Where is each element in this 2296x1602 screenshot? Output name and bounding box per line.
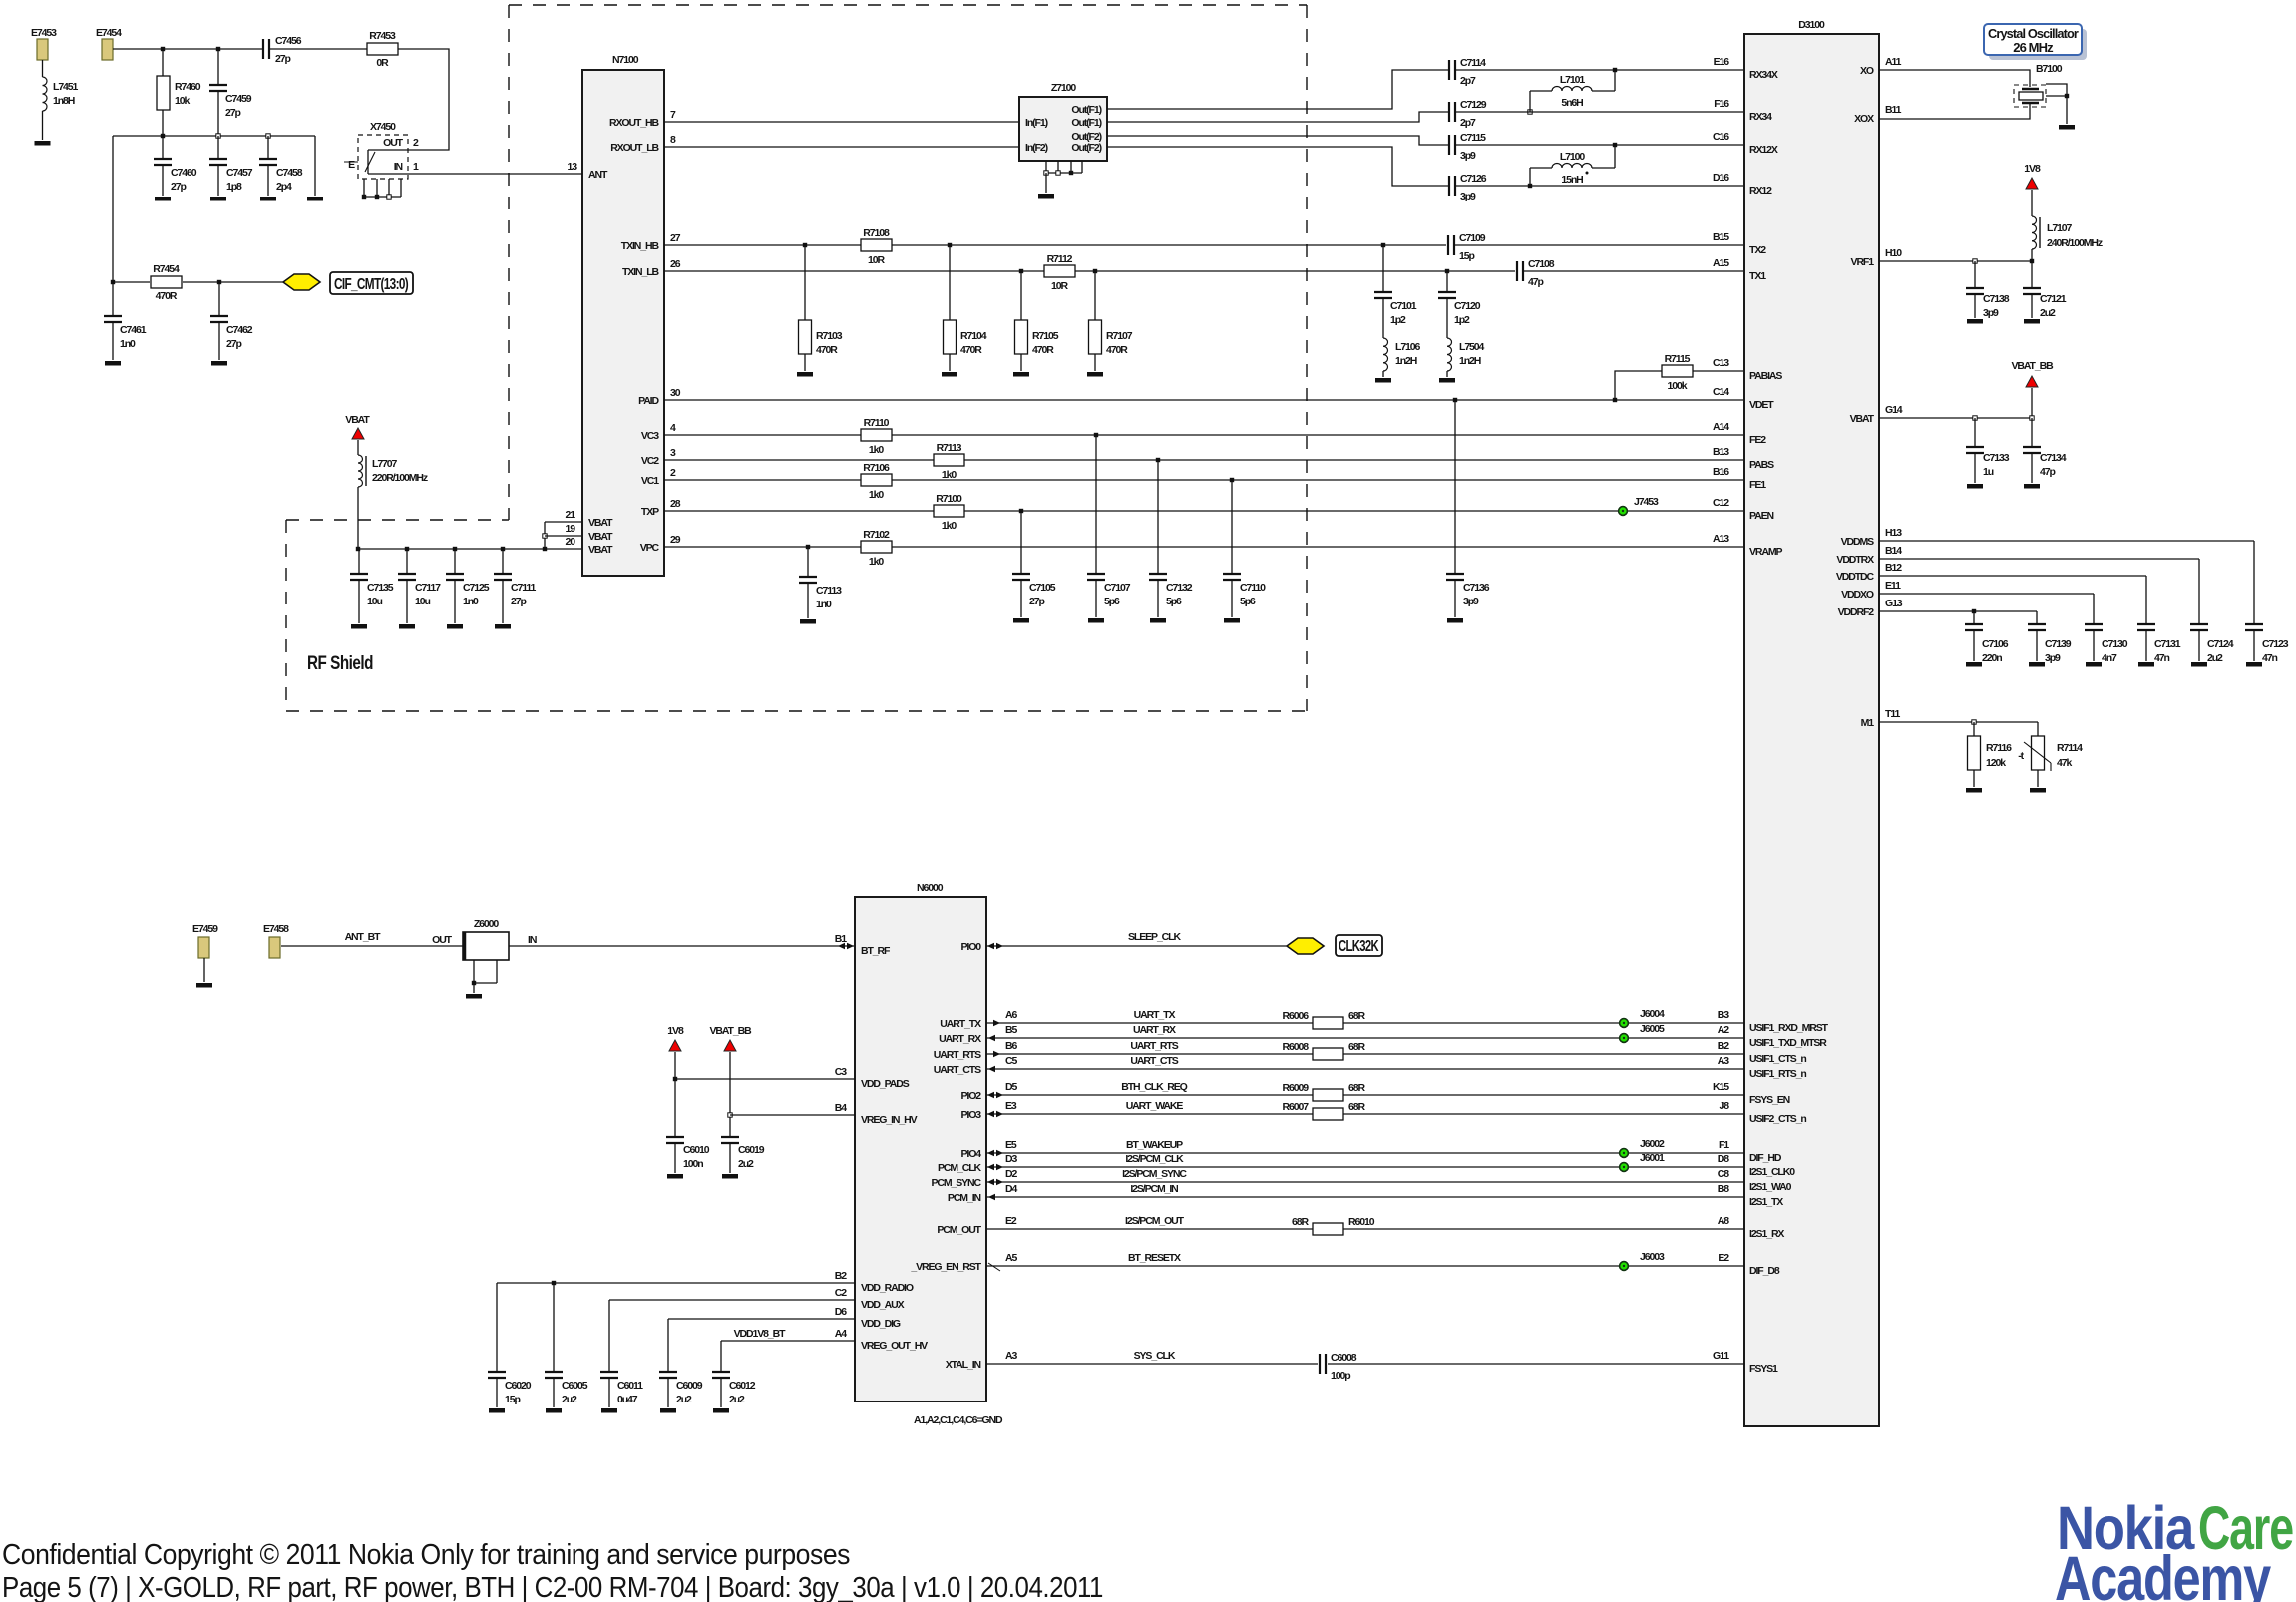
pin B11 XOX bbox=[1854, 104, 1902, 125]
svg-text:27p: 27p bbox=[275, 53, 290, 65]
svg-text:R7102: R7102 bbox=[863, 529, 890, 541]
IC Z7100 (RX SAW filter) bbox=[1019, 82, 1107, 161]
svg-text:R7105: R7105 bbox=[1032, 330, 1059, 342]
svg-text:VC1: VC1 bbox=[641, 475, 659, 487]
svg-text:B3: B3 bbox=[1718, 1009, 1729, 1021]
svg-text:C7125: C7125 bbox=[463, 582, 490, 594]
svg-text:470R: 470R bbox=[156, 290, 178, 302]
pin G11 FSYS1 bbox=[1713, 1350, 1778, 1375]
pin B3 USIF1_RXD_MRST bbox=[1718, 1009, 1829, 1034]
svg-text:CIF_CMT(13:0): CIF_CMT(13:0) bbox=[334, 276, 408, 293]
svg-text:E7453: E7453 bbox=[31, 27, 57, 39]
svg-text:L7451: L7451 bbox=[53, 81, 79, 93]
svg-text:I2S1_CLK0: I2S1_CLK0 bbox=[1749, 1166, 1795, 1178]
wire VDD_AUX net bbox=[609, 1300, 855, 1372]
ground bbox=[2029, 662, 2045, 667]
svg-text:R7114: R7114 bbox=[2057, 742, 2083, 754]
pin E5 PIO4 bbox=[960, 1139, 1016, 1160]
ground bbox=[466, 994, 482, 999]
svg-text:C6009: C6009 bbox=[676, 1380, 703, 1392]
capacitor C7126 3p9 (series) bbox=[1449, 173, 1487, 202]
svg-text:C7457: C7457 bbox=[226, 167, 253, 179]
svg-text:L7106: L7106 bbox=[1395, 341, 1421, 353]
wire M1 net bbox=[1879, 720, 2038, 736]
svg-text:D3100: D3100 bbox=[1798, 19, 1825, 31]
svg-text:PABIAS: PABIAS bbox=[1749, 370, 1782, 382]
pin A3 XTAL_IN bbox=[946, 1350, 1018, 1371]
pin B5 UART_RX bbox=[939, 1024, 1017, 1045]
svg-text:PAID: PAID bbox=[638, 395, 659, 407]
svg-text:A1,A2,C1,C4,C6=GND: A1,A2,C1,C4,C6=GND bbox=[914, 1414, 1003, 1426]
IC D3100 (X-GOLD baseband) bbox=[1744, 19, 1879, 1426]
power 1V8 bbox=[667, 1025, 684, 1051]
svg-text:C7109: C7109 bbox=[1459, 232, 1486, 244]
svg-text:R6008: R6008 bbox=[1283, 1041, 1310, 1053]
svg-text:29: 29 bbox=[670, 534, 681, 546]
svg-text:2p7: 2p7 bbox=[1460, 117, 1476, 129]
pin 21 VBAT bbox=[566, 509, 614, 529]
capacitor C7114 2p7 (series) bbox=[1449, 57, 1486, 87]
svg-text:15p: 15p bbox=[1459, 250, 1474, 262]
svg-text:VBAT: VBAT bbox=[588, 544, 613, 556]
capacitor C7113 1n0 bbox=[799, 547, 842, 618]
svg-text:47k: 47k bbox=[2057, 757, 2072, 769]
pin B15 TX2 bbox=[1713, 231, 1766, 256]
capacitor C7111 27p bbox=[494, 549, 537, 623]
pin B8 I2S1_TX bbox=[1718, 1183, 1783, 1208]
wire VBAT net bbox=[1879, 388, 2034, 420]
pin E11 VDDXO bbox=[1841, 580, 1901, 601]
resistor R7105 470R bbox=[1015, 271, 1059, 371]
svg-text:UART_TX: UART_TX bbox=[940, 1018, 981, 1030]
resistor R6010 68R bbox=[1292, 1216, 1375, 1235]
svg-text:USIF1_TXD_MTSR: USIF1_TXD_MTSR bbox=[1749, 1037, 1827, 1049]
capacitor C7457 1p8 bbox=[209, 136, 253, 196]
test point J6001 bbox=[1620, 1152, 1665, 1171]
svg-text:I2S1_WA0: I2S1_WA0 bbox=[1749, 1181, 1792, 1193]
svg-text:C6011: C6011 bbox=[617, 1380, 643, 1392]
svg-text:C3: C3 bbox=[835, 1066, 847, 1078]
svg-text:In(F2): In(F2) bbox=[1025, 142, 1048, 154]
svg-text:10u: 10u bbox=[415, 596, 430, 607]
svg-text:1p2: 1p2 bbox=[1454, 314, 1470, 326]
svg-text:R7116: R7116 bbox=[1986, 742, 2012, 754]
svg-text:R7460: R7460 bbox=[175, 81, 201, 93]
svg-text:L7107: L7107 bbox=[2047, 222, 2073, 234]
svg-text:10k: 10k bbox=[175, 95, 190, 107]
resistor R7114 47k (thermistor) bbox=[2018, 736, 2083, 787]
capacitor C7123 47n bbox=[2245, 624, 2289, 664]
pin 2 VC1 bbox=[641, 467, 676, 487]
pin 4 VC3 bbox=[641, 422, 676, 442]
svg-text:Out(F1): Out(F1) bbox=[1071, 104, 1101, 116]
wire ANT_BT bbox=[281, 931, 463, 946]
pin G14 VBAT bbox=[1850, 404, 1903, 425]
capacitor C7108 47p (series) bbox=[1517, 258, 1555, 288]
svg-text:J7453: J7453 bbox=[1634, 496, 1659, 508]
svg-text:PIO2: PIO2 bbox=[960, 1090, 981, 1102]
svg-text:240R/100MHz: 240R/100MHz bbox=[2047, 237, 2103, 249]
pin A3 USIF1_RTS_n bbox=[1718, 1055, 1807, 1080]
ground bbox=[1447, 618, 1463, 623]
svg-text:A3: A3 bbox=[1718, 1055, 1729, 1067]
pin 8 RXOUT_LB bbox=[610, 134, 676, 154]
wire TXIN_LB net bbox=[664, 269, 1744, 273]
wire RXOUT_HB to In(F1) bbox=[664, 121, 1019, 123]
svg-text:DIF_D8: DIF_D8 bbox=[1749, 1265, 1780, 1277]
capacitor C7130 4n7 bbox=[2085, 624, 2128, 664]
svg-text:C7114: C7114 bbox=[1460, 57, 1486, 69]
svg-text:1k0: 1k0 bbox=[942, 520, 957, 532]
power VBAT_BB bbox=[2011, 360, 2054, 387]
svg-text:RX12X: RX12X bbox=[1749, 144, 1778, 156]
svg-text:470R: 470R bbox=[960, 344, 982, 356]
pin 28 TXP bbox=[641, 498, 681, 518]
ground bbox=[35, 141, 51, 146]
svg-text:47n: 47n bbox=[2262, 652, 2277, 664]
pin 26 TXIN_LB bbox=[622, 258, 681, 278]
svg-text:C7105: C7105 bbox=[1029, 582, 1056, 594]
svg-text:In(F1): In(F1) bbox=[1025, 117, 1048, 129]
svg-text:ANT_BT: ANT_BT bbox=[345, 931, 382, 943]
wire SYS_CLK net bbox=[986, 1350, 1744, 1364]
svg-text:D16: D16 bbox=[1713, 172, 1729, 184]
svg-text:R7454: R7454 bbox=[153, 263, 180, 275]
pin A8 I2S1_RX bbox=[1718, 1215, 1785, 1240]
pin 19 VBAT bbox=[566, 523, 614, 543]
pin A11 XO bbox=[1860, 56, 1902, 77]
capacitor C7461 1n0 bbox=[104, 282, 147, 360]
svg-text:BT_RESETX: BT_RESETX bbox=[1128, 1252, 1181, 1264]
svg-text:C7131: C7131 bbox=[2154, 638, 2181, 650]
svg-text:20: 20 bbox=[566, 536, 576, 548]
svg-text:J6004: J6004 bbox=[1640, 1008, 1665, 1020]
ground bbox=[447, 624, 463, 629]
ground bbox=[546, 1408, 562, 1413]
svg-text:VBAT: VBAT bbox=[1850, 413, 1875, 425]
svg-text:B7100: B7100 bbox=[2036, 63, 2063, 75]
svg-text:68R: 68R bbox=[1348, 1010, 1365, 1022]
svg-text:N7100: N7100 bbox=[612, 54, 639, 66]
svg-text:C12: C12 bbox=[1713, 497, 1729, 509]
ground bbox=[1013, 618, 1029, 623]
ground bbox=[2059, 125, 2075, 130]
svg-text:A5: A5 bbox=[1005, 1252, 1017, 1264]
pin H10 VRF1 bbox=[1851, 247, 1903, 268]
svg-text:I2S1_TX: I2S1_TX bbox=[1749, 1196, 1783, 1208]
pin 27 TXIN_HB bbox=[621, 232, 681, 252]
wire BT_WAKEUP net bbox=[986, 1139, 1744, 1156]
capacitor C6019 2u2 bbox=[721, 1052, 765, 1173]
capacitor C7131 47n bbox=[2137, 624, 2181, 664]
svg-text:PAEN: PAEN bbox=[1749, 510, 1774, 522]
pin E2 PCM_OUT bbox=[937, 1215, 1017, 1236]
pin C5 UART_CTS bbox=[934, 1055, 1018, 1076]
pin B14 VDDTRX bbox=[1836, 545, 1902, 566]
svg-text:C6008: C6008 bbox=[1331, 1352, 1357, 1364]
svg-text:C7133: C7133 bbox=[1983, 452, 2010, 464]
wire UART_RX net bbox=[986, 1024, 1744, 1041]
svg-text:1n8H: 1n8H bbox=[53, 95, 75, 107]
ground bbox=[1967, 484, 1983, 489]
ground bbox=[211, 361, 227, 366]
svg-text:VC2: VC2 bbox=[641, 455, 659, 467]
svg-text:D4: D4 bbox=[1005, 1183, 1017, 1195]
svg-text:J6001: J6001 bbox=[1640, 1152, 1665, 1164]
capacitor C7129 2p7 (series) bbox=[1449, 99, 1487, 129]
svg-text:2u2: 2u2 bbox=[676, 1394, 692, 1405]
svg-text:PCM_OUT: PCM_OUT bbox=[937, 1224, 981, 1236]
svg-text:1n0: 1n0 bbox=[816, 599, 832, 610]
svg-text:3p9: 3p9 bbox=[1460, 150, 1476, 162]
svg-text:120k: 120k bbox=[1986, 757, 2006, 769]
pin 13 ANT bbox=[568, 161, 608, 181]
resistor R7454 470R bbox=[151, 263, 182, 302]
pin E16 RX34X bbox=[1714, 56, 1778, 81]
svg-text:C2: C2 bbox=[835, 1287, 847, 1299]
resistor R7112 10R bbox=[1044, 253, 1075, 292]
ground bbox=[2138, 662, 2154, 667]
ground bbox=[1150, 618, 1166, 623]
pin 3 VC2 bbox=[641, 447, 676, 467]
bus arrow CLK32K bbox=[1287, 938, 1324, 954]
resistor R6008 68R bbox=[1283, 1041, 1366, 1060]
svg-text:G11: G11 bbox=[1713, 1350, 1729, 1362]
svg-text:VC3: VC3 bbox=[641, 430, 659, 442]
svg-text:Confidential Copyright © 2011: Confidential Copyright © 2011 Nokia Only… bbox=[2, 1539, 850, 1571]
resistor R7107 470R bbox=[1089, 271, 1133, 371]
svg-text:R6010: R6010 bbox=[1348, 1216, 1375, 1228]
wire Out(F2)b to C7126 bbox=[1107, 147, 1744, 188]
ground bbox=[1224, 618, 1240, 623]
wire R7454 to CIF_CMT bus bbox=[183, 280, 283, 284]
wire Out(F1)a to C7114 bbox=[1107, 68, 1744, 109]
svg-text:B12: B12 bbox=[1885, 562, 1902, 574]
svg-text:3p9: 3p9 bbox=[1463, 596, 1479, 607]
pin G13 VDDRF2 bbox=[1838, 598, 1903, 618]
svg-text:1n2H: 1n2H bbox=[1459, 355, 1481, 367]
wire UART_RTS net bbox=[986, 1040, 1744, 1057]
svg-text:J8: J8 bbox=[1720, 1100, 1730, 1112]
test point J6005 bbox=[1620, 1023, 1665, 1042]
svg-text:A8: A8 bbox=[1718, 1215, 1729, 1227]
IC N7100 (RF PA) bbox=[582, 54, 664, 576]
svg-text:C7130: C7130 bbox=[2102, 638, 2128, 650]
wire VREG_IN_HV net bbox=[730, 1114, 855, 1116]
wire Z7100 ground stubs bbox=[1044, 161, 1082, 193]
svg-text:A4: A4 bbox=[835, 1328, 847, 1340]
svg-text:C7115: C7115 bbox=[1460, 132, 1486, 144]
svg-text:3p9: 3p9 bbox=[1460, 191, 1476, 202]
svg-text:C6010: C6010 bbox=[683, 1144, 710, 1156]
svg-text:2p7: 2p7 bbox=[1460, 75, 1476, 87]
ground bbox=[2246, 662, 2262, 667]
capacitor C7136 3p9 bbox=[1446, 400, 1490, 617]
ground bbox=[1966, 788, 1982, 793]
svg-text:1k0: 1k0 bbox=[869, 489, 884, 501]
svg-text:27p: 27p bbox=[226, 338, 241, 350]
wire VDDXO net bbox=[1879, 594, 2094, 624]
svg-text:68R: 68R bbox=[1348, 1041, 1365, 1053]
svg-text:XO: XO bbox=[1860, 65, 1874, 77]
wire VDDRF2 net bbox=[1879, 609, 2037, 624]
svg-text:220R/100MHz: 220R/100MHz bbox=[372, 472, 428, 484]
svg-text:ANT: ANT bbox=[588, 169, 608, 181]
resistor R7115 100k bbox=[1615, 353, 1744, 400]
capacitor C7458 2p4 bbox=[259, 136, 303, 196]
svg-text:E2: E2 bbox=[1005, 1215, 1017, 1227]
svg-text:UART_RTS: UART_RTS bbox=[1130, 1040, 1178, 1052]
svg-text:C7134: C7134 bbox=[2040, 452, 2067, 464]
svg-text:15nH: 15nH bbox=[1561, 174, 1583, 186]
svg-text:R7103: R7103 bbox=[816, 330, 843, 342]
svg-text:R7112: R7112 bbox=[1047, 253, 1073, 265]
svg-text:T11: T11 bbox=[1885, 708, 1900, 720]
svg-text:100n: 100n bbox=[683, 1158, 703, 1170]
svg-text:UART_CTS: UART_CTS bbox=[1130, 1055, 1178, 1067]
ground bbox=[2086, 662, 2102, 667]
svg-text:C6012: C6012 bbox=[729, 1380, 756, 1392]
pin D3 PCM_CLK bbox=[938, 1153, 1018, 1174]
svg-text:B15: B15 bbox=[1713, 231, 1729, 243]
pin D2 PCM_SYNC bbox=[931, 1168, 1017, 1189]
svg-text:VDDXO: VDDXO bbox=[1841, 589, 1874, 601]
svg-text:BT_WAKEUP: BT_WAKEUP bbox=[1126, 1139, 1183, 1151]
svg-text:19: 19 bbox=[566, 523, 576, 535]
svg-text:A15: A15 bbox=[1713, 257, 1729, 269]
pin 20 VBAT bbox=[566, 536, 614, 556]
svg-text:470R: 470R bbox=[816, 344, 838, 356]
wire PAID to VDET net bbox=[664, 398, 1744, 402]
resistor R7104 470R bbox=[944, 245, 987, 371]
wire RXOUT_LB to In(F2) bbox=[664, 146, 1019, 148]
capacitor C7135 10u bbox=[350, 549, 394, 623]
svg-text:C6005: C6005 bbox=[562, 1380, 588, 1392]
svg-text:B14: B14 bbox=[1885, 545, 1902, 557]
svg-text:SYS_CLK: SYS_CLK bbox=[1134, 1350, 1176, 1362]
svg-text:N6000: N6000 bbox=[917, 882, 944, 894]
svg-text:Academy: Academy bbox=[2055, 1544, 2271, 1602]
pin C2 VDD_AUX bbox=[835, 1287, 905, 1311]
ground bbox=[1375, 378, 1391, 383]
resistor R6006 68R bbox=[1283, 1010, 1366, 1029]
svg-text:C7107: C7107 bbox=[1104, 582, 1131, 594]
svg-text:Out(F1): Out(F1) bbox=[1071, 117, 1101, 129]
svg-text:26 MHz: 26 MHz bbox=[2013, 40, 2054, 55]
capacitor C6008 100p (series) bbox=[1320, 1352, 1357, 1382]
svg-text:E7458: E7458 bbox=[263, 923, 289, 935]
wire R7453 to X7450 OUT pin 2 bbox=[398, 49, 449, 150]
svg-text:10R: 10R bbox=[1051, 280, 1068, 292]
resistor R7113 1k0 bbox=[934, 442, 964, 481]
svg-text:B5: B5 bbox=[1005, 1024, 1017, 1036]
svg-text:SLEEP_CLK: SLEEP_CLK bbox=[1128, 931, 1181, 943]
svg-text:1k0: 1k0 bbox=[942, 469, 957, 481]
svg-text:L7100: L7100 bbox=[1560, 151, 1586, 163]
capacitor C7101 1p2 with inductor L7106 1n2H bbox=[1374, 245, 1421, 377]
svg-text:C7117: C7117 bbox=[415, 582, 441, 594]
pin C8 I2S1_WA0 bbox=[1718, 1168, 1792, 1193]
svg-text:G14: G14 bbox=[1885, 404, 1903, 416]
svg-text:A6: A6 bbox=[1005, 1009, 1017, 1021]
svg-text:C7136: C7136 bbox=[1463, 582, 1490, 594]
svg-text:3p9: 3p9 bbox=[2045, 652, 2061, 664]
ground bbox=[1439, 378, 1455, 383]
svg-text:VRF1: VRF1 bbox=[1851, 256, 1875, 268]
svg-text:PIO0: PIO0 bbox=[960, 941, 981, 953]
svg-text:VDD_RADIO: VDD_RADIO bbox=[861, 1282, 914, 1294]
ground bbox=[351, 624, 367, 629]
bus arrow CIF_CMT bbox=[283, 274, 320, 290]
ground bbox=[660, 1408, 676, 1413]
pad E7459 bbox=[192, 923, 218, 982]
svg-text:5p6: 5p6 bbox=[1104, 596, 1120, 607]
svg-text:VDD1V8_BT: VDD1V8_BT bbox=[734, 1328, 786, 1340]
capacitor C7109 15p (series) bbox=[1448, 232, 1486, 262]
wire I2S/PCM_SYNC net bbox=[986, 1168, 1744, 1185]
wire TXIN_HB net bbox=[664, 243, 1744, 247]
svg-text:FSYS1: FSYS1 bbox=[1749, 1363, 1778, 1375]
svg-text:A2: A2 bbox=[1718, 1024, 1729, 1036]
svg-text:G13: G13 bbox=[1885, 598, 1903, 609]
wire VDDTDC net bbox=[1879, 576, 2146, 624]
inductor L7100 15nH bbox=[1530, 145, 1615, 186]
resistor R7108 10R bbox=[861, 227, 892, 266]
svg-text:RX34X: RX34X bbox=[1749, 69, 1778, 81]
svg-text:USIF2_CTS_n: USIF2_CTS_n bbox=[1749, 1113, 1806, 1125]
svg-text:1n0: 1n0 bbox=[463, 596, 479, 607]
pin F1 DIF_HD bbox=[1719, 1139, 1782, 1164]
capacitor C7107 5p6 bbox=[1087, 435, 1131, 617]
svg-text:1n2H: 1n2H bbox=[1395, 355, 1417, 367]
svg-text:I2S/PCM_IN: I2S/PCM_IN bbox=[1130, 1183, 1178, 1195]
svg-text:VDDRF2: VDDRF2 bbox=[1838, 606, 1875, 618]
capacitor C7121 2u2 bbox=[2023, 261, 2067, 319]
svg-text:VPC: VPC bbox=[640, 542, 660, 554]
svg-text:4n7: 4n7 bbox=[2102, 652, 2117, 664]
svg-text:C7460: C7460 bbox=[171, 167, 197, 179]
net label CLK32K bbox=[1336, 935, 1382, 956]
pin A15 TX1 bbox=[1713, 257, 1766, 282]
wire ANT net (X7450 IN to N7100) bbox=[408, 173, 582, 175]
capacitor C7105 27p bbox=[1012, 511, 1056, 617]
svg-text:220n: 220n bbox=[1982, 652, 2002, 664]
svg-text:B11: B11 bbox=[1885, 104, 1902, 116]
pin E2 DIF_D8 bbox=[1718, 1252, 1779, 1277]
svg-text:TXIN_HB: TXIN_HB bbox=[621, 240, 660, 252]
capacitor C7120 1p2 with inductor L7504 1n2H bbox=[1438, 271, 1485, 377]
svg-text:R7107: R7107 bbox=[1106, 330, 1133, 342]
ground bbox=[601, 1408, 617, 1413]
pad E7453 bbox=[31, 27, 57, 60]
svg-text:27p: 27p bbox=[1029, 596, 1044, 607]
svg-text:D2: D2 bbox=[1005, 1168, 1017, 1180]
ground bbox=[196, 983, 212, 988]
svg-text:PIO4: PIO4 bbox=[960, 1148, 981, 1160]
resistor R6009 68R bbox=[1283, 1082, 1366, 1101]
svg-text:Crystal Oscillator: Crystal Oscillator bbox=[1988, 26, 2079, 41]
svg-text:C7139: C7139 bbox=[2045, 638, 2072, 650]
svg-text:C6020: C6020 bbox=[505, 1380, 532, 1392]
inductor L7107 240R/100MHz bbox=[2032, 190, 2103, 261]
pin B16 FE1 bbox=[1713, 466, 1766, 491]
resistor R7453 0R bbox=[367, 30, 398, 69]
wire VDDTRX net bbox=[1879, 559, 2199, 624]
svg-text:FE2: FE2 bbox=[1749, 434, 1766, 446]
test point J6004 bbox=[1620, 1008, 1665, 1027]
svg-text:PCM_SYNC: PCM_SYNC bbox=[931, 1177, 981, 1189]
svg-text:VBAT_BB: VBAT_BB bbox=[2011, 360, 2054, 372]
